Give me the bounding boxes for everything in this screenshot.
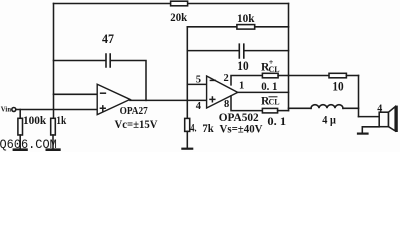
svg-text:10k: 10k [237, 11, 255, 25]
svg-text:20k: 20k [170, 10, 187, 24]
resistor 20k [171, 1, 188, 6]
op-amp U2 OPA502 [207, 76, 238, 108]
svg-text:Vin: Vin [1, 105, 12, 114]
wire: Vin to OPA27 + input [16, 109, 97, 111]
svg-text:47: 47 [102, 31, 114, 46]
resistor 10k [187, 26, 237, 28]
wire: OPA502 pin 5 input [187, 83, 206, 85]
wire: pin 2 to RCL+ [231, 76, 262, 85]
svg-text:7k: 7k [202, 123, 214, 135]
wire: right output vertical [358, 76, 360, 117]
svg-text:CL: CL [269, 65, 280, 74]
wire: top feedback wire [54, 3, 289, 5]
wire: OPA502 feedback node vertical [186, 27, 188, 119]
wire: OPA27 output to OPA502 + input [130, 99, 207, 101]
svg-text:2: 2 [224, 73, 229, 84]
wire: 47pF branch horizontal [54, 60, 106, 62]
wire: speaker top terminal [359, 116, 380, 118]
wire: OPA27 inverting input [54, 93, 98, 95]
svg-text:4: 4 [196, 101, 202, 112]
ground (4.7k) [182, 148, 192, 150]
svg-text:1k: 1k [56, 113, 66, 127]
resistor 4.7k [185, 118, 190, 131]
resistor RCL+ 0.1 [262, 73, 278, 78]
svg-text:Vs=±40V: Vs=±40V [220, 121, 263, 135]
svg-text:100k: 100k [23, 113, 46, 127]
inductor 4u [289, 107, 312, 109]
svg-text:0. 1: 0. 1 [267, 114, 286, 128]
ground (100k) [14, 148, 27, 151]
capacitor 47 [106, 54, 110, 67]
svg-text:Q606.COM: Q606.COM [0, 138, 57, 152]
wire: OPA502 output pin 1 [238, 91, 289, 93]
svg-text:10: 10 [332, 80, 343, 94]
svg-text:1: 1 [239, 80, 244, 91]
resistor 100k [19, 110, 21, 119]
capacitor 10 [239, 44, 244, 58]
svg-text:Vc=±15V: Vc=±15V [115, 117, 158, 131]
svg-text:10: 10 [237, 59, 248, 73]
resistor 1k [51, 118, 56, 135]
svg-text:OPA27: OPA27 [120, 105, 149, 117]
wire: pin 8 to RCL- [231, 96, 262, 111]
svg-text:5: 5 [196, 75, 201, 86]
resistor 10 (output) [289, 75, 330, 77]
resistor RCL- 0.1 [262, 108, 277, 113]
wire: 47pF branch to corner [111, 61, 146, 101]
svg-text:0. 1: 0. 1 [261, 79, 277, 93]
wire: 10 cap branch [187, 50, 238, 52]
svg-text:4: 4 [377, 104, 382, 115]
wire: left feedback vertical [53, 4, 55, 119]
ground (speaker) [358, 133, 368, 135]
wire: speaker bottom terminal [362, 127, 379, 133]
speaker LS1 [379, 112, 388, 127]
svg-text:4 μ: 4 μ [322, 115, 336, 127]
node: Vin terminal circle [12, 108, 16, 112]
wire: output node vertical [288, 4, 290, 111]
svg-text:4.: 4. [190, 123, 196, 135]
ground (1k) [47, 148, 60, 151]
svg-text:8: 8 [224, 99, 229, 110]
svg-text:CL: CL [269, 98, 280, 107]
op-amp U1 OPA27 [97, 84, 130, 114]
